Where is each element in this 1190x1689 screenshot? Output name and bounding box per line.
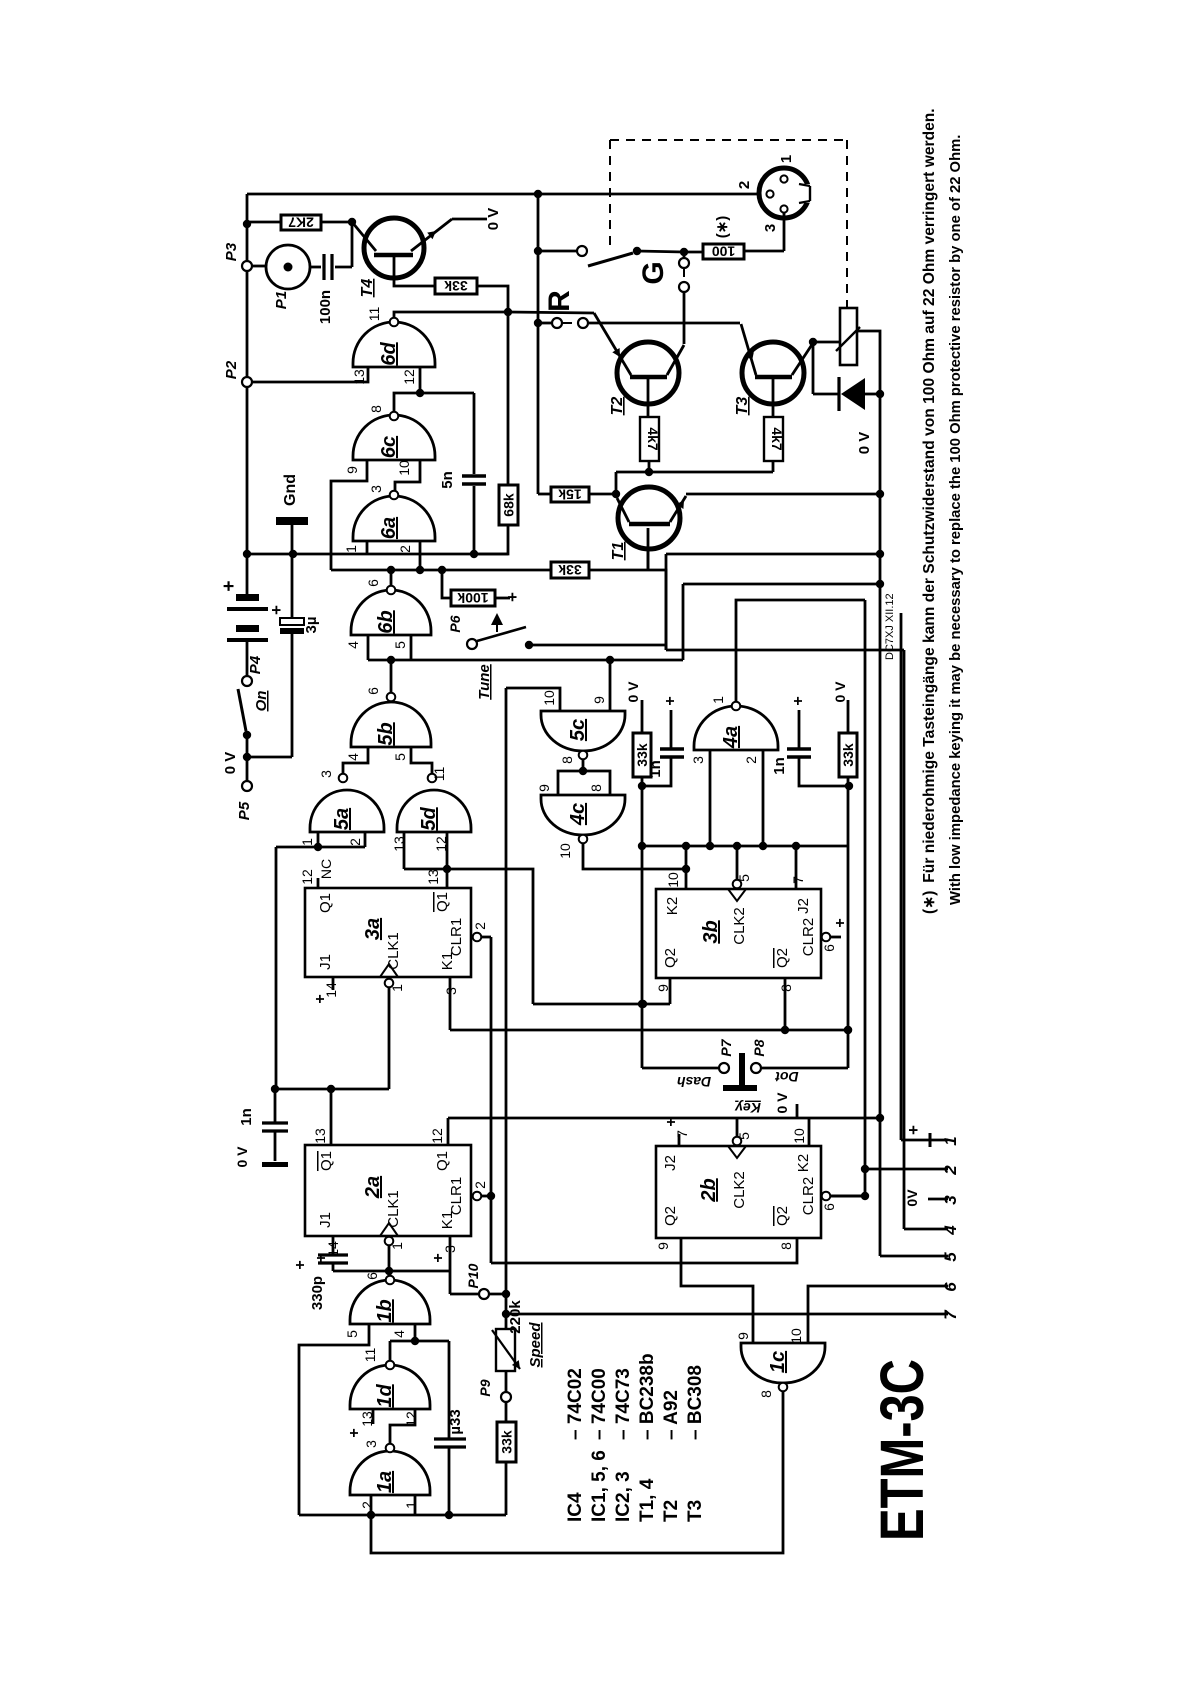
svg-text:3: 3 [368, 485, 384, 493]
svg-text:NC: NC [318, 859, 334, 879]
svg-text:2K7: 2K7 [288, 215, 314, 231]
svg-text:11: 11 [431, 767, 447, 782]
svg-text:10: 10 [557, 843, 573, 859]
wire [558, 771, 610, 795]
svg-text:2: 2 [397, 545, 413, 553]
svg-text:4k7: 4k7 [769, 427, 785, 451]
svg-text:8: 8 [559, 756, 575, 764]
switch P4 On [242, 676, 252, 686]
svg-text:3µ: 3µ [303, 617, 320, 634]
svg-text:100: 100 [712, 244, 736, 260]
svg-text:R: R [543, 290, 576, 312]
svg-text:J1: J1 [317, 1212, 334, 1228]
resistor 100 protective [703, 244, 744, 259]
svg-text:On: On [253, 691, 270, 712]
svg-text:CLR2: CLR2 [800, 1177, 817, 1215]
resistor 15k [551, 487, 589, 502]
svg-text:– BC238b: – BC238b [637, 1353, 658, 1440]
nand 6a [353, 496, 435, 541]
svg-text:10: 10 [665, 872, 681, 888]
svg-text:6: 6 [821, 944, 837, 952]
wire 6b out [390, 570, 393, 586]
svg-text:J2: J2 [795, 898, 812, 914]
net K1-Q2bar [450, 1029, 848, 1032]
svg-text:Dot: Dot [774, 1069, 799, 1085]
svg-text:2a: 2a [362, 1176, 384, 1199]
junction [387, 656, 395, 664]
svg-text:5a: 5a [331, 808, 353, 830]
svg-text:6: 6 [941, 1282, 960, 1292]
nand 1b [350, 1280, 430, 1324]
svg-text:+: + [267, 605, 286, 615]
nand 5c [541, 711, 625, 751]
svg-text:Q2: Q2 [662, 1206, 679, 1226]
svg-text:Q1: Q1 [434, 892, 451, 912]
svg-text:Q1: Q1 [318, 1151, 335, 1171]
wire 2b Q2bar CLR1 [491, 1238, 797, 1263]
transistor T4 [364, 218, 424, 278]
nand 1a [350, 1451, 430, 1495]
nand 1d [350, 1365, 430, 1409]
net 5b line right [682, 584, 685, 660]
svg-text:2: 2 [472, 922, 488, 930]
svg-text:7: 7 [941, 1309, 960, 1320]
svg-text:µ33: µ33 [447, 1409, 464, 1434]
svg-text:3a: 3a [362, 918, 384, 940]
svg-text:IC1, 5, 6: IC1, 5, 6 [589, 1450, 610, 1522]
capacitor 1n [274, 1089, 277, 1122]
nand 4c [541, 795, 625, 835]
wire 5a inputs tied [317, 832, 320, 847]
svg-text:33k: 33k [499, 1430, 515, 1454]
svg-text:6b: 6b [375, 610, 397, 633]
svg-text:1a: 1a [374, 1471, 396, 1493]
wire net osc [368, 659, 683, 662]
svg-text:9: 9 [655, 1242, 671, 1250]
ic 3a [305, 888, 471, 977]
svg-text:6: 6 [365, 579, 381, 587]
svg-text:– 74C00: – 74C00 [589, 1368, 610, 1440]
svg-text:9: 9 [536, 784, 552, 792]
wire [477, 286, 508, 485]
wire 1b in4 [414, 1324, 417, 1341]
svg-text:5: 5 [941, 1252, 960, 1262]
svg-text:11: 11 [362, 1348, 378, 1363]
svg-text:P8: P8 [751, 1039, 767, 1056]
svg-text:12: 12 [401, 369, 417, 385]
svg-text:1: 1 [343, 545, 359, 553]
svg-text:5b: 5b [375, 722, 397, 745]
svg-text:P5: P5 [236, 801, 253, 820]
net keyline [529, 644, 666, 647]
svg-text:11: 11 [366, 307, 382, 322]
svg-text:6c: 6c [378, 436, 400, 458]
svg-text:P1: P1 [273, 291, 290, 309]
ground Gnd [276, 517, 308, 525]
svg-text:0V: 0V [904, 1189, 920, 1207]
svg-text:2: 2 [347, 838, 363, 846]
svg-text:8: 8 [758, 1390, 774, 1398]
net CLK1 line [448, 1117, 880, 1120]
clr bubble 3a pin2 [473, 933, 482, 942]
svg-text:+: + [662, 696, 679, 705]
svg-text:4k7: 4k7 [645, 427, 661, 451]
svg-text:P2: P2 [223, 360, 240, 379]
svg-text:– 74C02: – 74C02 [565, 1368, 586, 1440]
wire 3a K1 [449, 977, 452, 1030]
svg-text:T2: T2 [609, 397, 626, 416]
wire 5d in13 [403, 832, 406, 869]
svg-text:10: 10 [541, 690, 557, 706]
svg-text:+: + [503, 592, 522, 602]
capacitor u33 [448, 1341, 451, 1438]
svg-text:10: 10 [788, 1328, 804, 1344]
net CLK2 [736, 1118, 739, 1137]
svg-text:J2: J2 [662, 1155, 679, 1171]
svg-text:Q2: Q2 [774, 948, 791, 968]
svg-text:+: + [292, 1260, 309, 1269]
svg-text:IC4: IC4 [565, 1492, 586, 1522]
nand 6b [351, 590, 431, 635]
capacitor 330p [318, 1253, 348, 1256]
clear bus [642, 845, 849, 848]
svg-text:DC7XJ XII.12: DC7XJ XII.12 [884, 593, 896, 660]
wire 5c out [582, 759, 585, 771]
wire net dot paddle [847, 846, 850, 1068]
svg-text:3: 3 [363, 1440, 379, 1448]
wire 5c in10 [506, 688, 560, 711]
terminal P9 [505, 1402, 508, 1422]
svg-text:4: 4 [941, 1225, 960, 1236]
svg-text:5: 5 [344, 1330, 360, 1338]
svg-text:2: 2 [359, 1501, 375, 1509]
clock bubble 2a pin1 [385, 1237, 394, 1246]
junction [243, 753, 251, 761]
contacts R [538, 322, 552, 325]
svg-text:T2: T2 [661, 1500, 682, 1522]
svg-text:3: 3 [941, 1195, 960, 1205]
svg-text:Gnd: Gnd [282, 474, 299, 506]
junction [243, 550, 251, 558]
clr bubble 3b pin6 [822, 933, 831, 942]
svg-text:6a: 6a [378, 517, 400, 539]
svg-text:4a: 4a [720, 726, 742, 749]
svg-text:+: + [904, 1125, 923, 1135]
svg-text:CLK1: CLK1 [385, 1190, 402, 1228]
wire 6c in9 [331, 460, 367, 570]
svg-text:10: 10 [396, 460, 412, 476]
wire net CLK1 [275, 1088, 389, 1091]
junction [289, 550, 297, 558]
wire 1d in12 to 1a out [390, 1409, 415, 1443]
wire [275, 847, 278, 1089]
svg-text:K2: K2 [795, 1154, 812, 1172]
wire 6d out to T2 [508, 312, 594, 313]
wire 6d out [394, 312, 508, 318]
wire net dash paddle [641, 846, 644, 1068]
svg-text:4c: 4c [567, 803, 589, 826]
resistor 33k pullup right [839, 733, 857, 777]
svg-text:Speed: Speed [527, 1322, 544, 1368]
resistor 33k T1 base [551, 562, 589, 578]
wire 6a in2 [419, 541, 422, 570]
svg-text:8: 8 [588, 784, 604, 792]
svg-text:CLR1: CLR1 [448, 1177, 465, 1215]
resistor 4k7 T3 [764, 417, 783, 461]
wire [505, 1314, 508, 1329]
svg-text:P3: P3 [223, 242, 240, 261]
wire [247, 221, 281, 224]
wire 6d in13 P2 [252, 367, 368, 382]
wire to 1c [371, 1392, 783, 1553]
svg-text:0 V: 0 V [625, 681, 641, 703]
junction [387, 566, 395, 574]
terminal P3 [242, 261, 252, 271]
wire [321, 221, 352, 224]
net pin7 line [506, 1313, 948, 1316]
wire T4 base [394, 257, 435, 286]
junction [504, 308, 512, 316]
nand 5b [351, 702, 431, 747]
clr bubble 2b pin6 [822, 1192, 831, 1201]
svg-text:5d: 5d [418, 807, 440, 831]
svg-text:Q2: Q2 [662, 948, 679, 968]
svg-text:7: 7 [790, 876, 806, 884]
svg-text:6: 6 [364, 1272, 380, 1280]
svg-text:12: 12 [429, 1128, 445, 1144]
pin 5 wire [880, 1255, 948, 1258]
pin 1 [780, 175, 787, 182]
svg-text:2: 2 [736, 181, 753, 189]
svg-text:10: 10 [791, 1128, 807, 1144]
svg-text:CLK2: CLK2 [731, 907, 748, 945]
svg-text:1n: 1n [771, 757, 788, 775]
svg-text:3: 3 [690, 756, 706, 764]
wire 5b in5 [411, 747, 432, 773]
resistor 33k [435, 278, 477, 294]
terminal P5 [242, 781, 252, 791]
svg-text:G: G [637, 261, 670, 284]
net speed bottom [299, 1514, 506, 1517]
relay coil [840, 308, 857, 365]
svg-text:330p: 330p [309, 1276, 326, 1310]
wire [351, 222, 354, 267]
junction [443, 865, 451, 873]
junction [243, 220, 251, 228]
svg-text:1: 1 [710, 696, 726, 704]
wire [247, 756, 292, 759]
svg-text:+: + [312, 994, 329, 1003]
svg-text:K2: K2 [664, 897, 681, 915]
svg-text:12: 12 [299, 869, 315, 885]
net CLR2 rail [864, 600, 867, 1196]
pin 4 wire [903, 650, 906, 1229]
wire [246, 271, 249, 554]
wire 5d in12 to 3a Q1bar [446, 832, 449, 888]
wire 5c in9 [609, 660, 612, 711]
svg-text:1d: 1d [374, 1384, 396, 1408]
ic 2a [305, 1145, 471, 1236]
svg-text:1: 1 [778, 155, 795, 163]
terminal P2 [242, 377, 252, 387]
transistor T1 [618, 487, 680, 549]
svg-text:(∗) Für niederohmige Tasteingä: (∗) Für niederohmige Tasteingänge kann d… [921, 108, 938, 914]
svg-text:2b: 2b [698, 1178, 720, 1202]
wire 1a inputs [370, 1495, 373, 1515]
resistor 2K7 [281, 215, 321, 230]
capacitor 3u electrolytic [291, 554, 294, 618]
dashed box connector [610, 139, 847, 141]
wire 0V bus left [247, 553, 508, 556]
svg-text:6d: 6d [378, 342, 400, 366]
wire [394, 393, 474, 412]
svg-text:Q1: Q1 [434, 1151, 451, 1171]
wire 6d in12 [419, 367, 422, 393]
transistor T2 [617, 342, 679, 404]
svg-text:3: 3 [762, 224, 779, 232]
svg-text:+: + [219, 580, 240, 591]
switch P6 tune [467, 639, 477, 649]
wire 1c in10 pin6 [808, 1286, 948, 1343]
wire [812, 342, 815, 394]
svg-text:+: + [832, 918, 849, 927]
svg-text:1n: 1n [238, 1108, 255, 1126]
svg-text:1: 1 [403, 1501, 419, 1509]
wire 1d in13 + [372, 1409, 375, 1424]
svg-text:4: 4 [345, 641, 361, 649]
nand 6c [353, 415, 435, 460]
svg-text:13: 13 [312, 1128, 328, 1144]
svg-text:T4: T4 [359, 279, 376, 298]
transistor T3 [742, 342, 804, 404]
wire top rail +supply [247, 193, 759, 196]
svg-text:5n: 5n [439, 471, 456, 489]
ic 2b [656, 1146, 821, 1238]
wire CLR net [490, 937, 493, 1263]
svg-text:15k: 15k [558, 487, 582, 503]
junction [470, 550, 478, 558]
resistor 4k7 T2 [640, 417, 659, 461]
wire 1b in5 [299, 1324, 369, 1515]
svg-text:(∗): (∗) [714, 216, 731, 239]
svg-text:+: + [346, 1428, 363, 1437]
svg-text:33k: 33k [444, 278, 468, 294]
wire T1 base [647, 528, 650, 570]
wire 0V [452, 218, 487, 221]
svg-text:33k: 33k [558, 562, 582, 578]
capacitor 1n dot [798, 710, 801, 748]
net P6 0V [665, 554, 668, 650]
junction [534, 190, 542, 198]
wire [246, 735, 249, 781]
wire 2b Q2 to 1c [681, 1238, 753, 1343]
svg-text:9: 9 [591, 696, 607, 704]
pin 3 [780, 205, 787, 212]
svg-text:13: 13 [425, 869, 441, 885]
svg-text:P7: P7 [718, 1038, 734, 1056]
svg-text:P4: P4 [247, 655, 264, 674]
svg-text:2: 2 [472, 1181, 488, 1189]
svg-text:Tune: Tune [476, 664, 493, 700]
svg-text:2: 2 [743, 756, 759, 764]
svg-text:– BC308: – BC308 [685, 1365, 706, 1440]
svg-text:J1: J1 [317, 954, 334, 970]
svg-text:220k: 220k [507, 1300, 524, 1334]
svg-text:+: + [663, 1117, 680, 1126]
svg-text:1c: 1c [767, 1351, 789, 1373]
svg-text:– 74C73: – 74C73 [613, 1368, 634, 1440]
wire pin3 [783, 213, 786, 251]
clock bubble 3a pin1 [385, 979, 394, 988]
nand 4a [694, 706, 778, 750]
net Q2 line [533, 1003, 670, 1006]
svg-text:P9: P9 [477, 1379, 493, 1396]
nand 5a [310, 790, 384, 832]
resistor 33k speed [505, 1462, 508, 1515]
diode [837, 377, 840, 411]
clock bubble 3b [733, 880, 742, 889]
wire 5b out [390, 660, 393, 693]
svg-text:5: 5 [392, 641, 408, 649]
svg-text:With low impedance keying it m: With low impedance keying it may be nece… [948, 135, 964, 905]
wire 4a inputs [709, 750, 712, 846]
svg-text:0 V: 0 V [222, 752, 239, 775]
resistor 33k pullup left [633, 733, 651, 777]
svg-text:9: 9 [735, 1332, 751, 1340]
switch S top [537, 194, 540, 494]
pin 2 [766, 190, 773, 197]
svg-text:1: 1 [389, 984, 405, 992]
svg-text:0 V: 0 V [774, 1092, 790, 1114]
capacitor 5n [473, 393, 476, 474]
svg-text:4: 4 [345, 753, 361, 761]
wire [474, 525, 508, 554]
junction [416, 566, 424, 574]
net collectors T1 [616, 471, 773, 474]
clock bubble 2b [733, 1137, 742, 1146]
svg-text:9: 9 [344, 466, 360, 474]
svg-text:1: 1 [299, 838, 315, 846]
svg-text:0 V: 0 V [856, 432, 873, 455]
svg-text:4: 4 [391, 1330, 407, 1338]
svg-text:T3: T3 [734, 397, 751, 416]
ic 3b [656, 889, 821, 978]
wire 6a in1 [366, 541, 369, 554]
junction [348, 218, 356, 226]
wire net Q1bar [404, 869, 533, 1004]
svg-text:100n: 100n [317, 290, 334, 324]
svg-text:P10: P10 [465, 1263, 481, 1288]
wire left rail upper [246, 194, 249, 261]
clr bubble 2a pin2 [473, 1192, 482, 1201]
wire 4a out [736, 600, 865, 701]
key paddle [719, 1063, 729, 1073]
svg-text:5: 5 [392, 753, 408, 761]
svg-text:3: 3 [318, 770, 334, 778]
nand 5d [397, 790, 471, 832]
svg-text:IC2, 3: IC2, 3 [613, 1471, 634, 1522]
svg-text:3b: 3b [700, 920, 722, 943]
svg-text:CLK1: CLK1 [385, 932, 402, 970]
svg-text:Q2: Q2 [774, 1206, 791, 1226]
svg-text:T1: T1 [610, 542, 627, 561]
svg-text:CLK2: CLK2 [731, 1171, 748, 1209]
svg-text:– A92: – A92 [661, 1390, 682, 1440]
svg-text:68k: 68k [501, 493, 517, 517]
terminal P10 [479, 1289, 489, 1299]
junction [416, 389, 424, 397]
wire T1 emitter 0V [686, 493, 880, 496]
